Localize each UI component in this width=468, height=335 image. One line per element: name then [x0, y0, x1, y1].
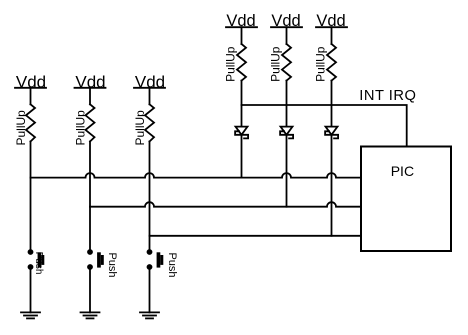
svg-text:PullUp: PullUp: [268, 46, 282, 82]
svg-text:PIC: PIC: [391, 163, 414, 179]
svg-text:Vdd: Vdd: [75, 72, 105, 91]
svg-text:PullUp: PullUp: [73, 110, 87, 146]
svg-text:Vdd: Vdd: [16, 72, 46, 91]
svg-text:PullUp: PullUp: [133, 110, 147, 146]
svg-text:Vdd: Vdd: [316, 12, 345, 30]
svg-text:PullUp: PullUp: [14, 110, 28, 146]
svg-text:Push: Push: [166, 252, 178, 277]
svg-text:INT IRQ: INT IRQ: [359, 88, 416, 104]
svg-text:Vdd: Vdd: [271, 12, 300, 30]
svg-text:Push: Push: [106, 252, 118, 277]
svg-text:Vdd: Vdd: [135, 72, 165, 91]
svg-text:Push: Push: [33, 252, 44, 275]
svg-text:PullUp: PullUp: [313, 46, 327, 82]
svg-text:PullUp: PullUp: [223, 46, 237, 82]
svg-text:Vdd: Vdd: [226, 12, 255, 30]
